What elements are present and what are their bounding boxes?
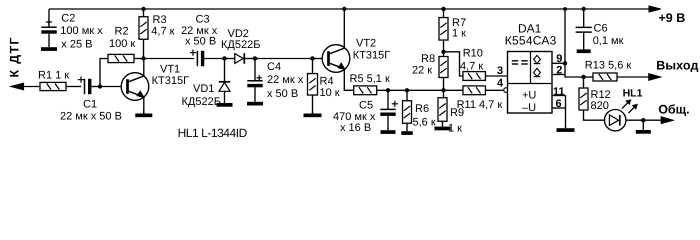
terminal Общ. arrow xyxy=(643,102,689,123)
wire node C to VD2 xyxy=(225,58,235,60)
resistor R9 xyxy=(438,90,464,134)
svg-text:x 16 В: x 16 В xyxy=(340,122,371,134)
capacitor C2 xyxy=(41,9,103,51)
ground under C4 xyxy=(247,87,263,105)
node G junction (R6 top) xyxy=(405,88,409,92)
svg-text:HL1: HL1 xyxy=(623,88,643,100)
node A junction (VT1 base) xyxy=(98,84,102,88)
wire VT1 emitter down xyxy=(143,97,145,114)
pin 11 line xyxy=(552,86,566,98)
svg-text:VT1: VT1 xyxy=(160,64,180,76)
svg-text:10 к: 10 к xyxy=(320,87,340,99)
ground under VT1 xyxy=(135,110,152,117)
node D junction (C4 top) xyxy=(253,56,257,60)
wire R10 to pin 3 xyxy=(486,75,508,77)
wire R11 to pin 4 circle xyxy=(486,89,504,91)
wire node G to node H xyxy=(407,89,444,91)
input terminal arrow xyxy=(11,83,24,90)
ground under C5 xyxy=(381,116,396,134)
wire R8 to node H xyxy=(443,78,445,91)
terminal Выход arrow xyxy=(649,58,699,80)
wire VD2 to node D xyxy=(244,58,255,60)
svg-text:9: 9 xyxy=(556,53,562,65)
terminal К ДТГ input label xyxy=(8,38,22,78)
svg-text:–U: –U xyxy=(522,102,536,114)
resistor R12 xyxy=(579,77,611,112)
svg-text:HL1 L-1344ID: HL1 L-1344ID xyxy=(178,126,248,140)
label +U xyxy=(522,89,536,101)
svg-text:C4: C4 xyxy=(267,61,281,73)
wire R1 to C1 xyxy=(66,86,81,88)
svg-text:4: 4 xyxy=(497,78,504,90)
svg-text:R3: R3 xyxy=(153,14,167,26)
wire pin 2 to output row xyxy=(565,63,584,77)
wire tap to R13 xyxy=(584,76,594,78)
svg-text:22 мк x 50 В: 22 мк x 50 В xyxy=(60,111,122,123)
open-collector diamond 1 xyxy=(534,55,541,63)
pin 3 label xyxy=(497,65,503,77)
ground under DA1 xyxy=(557,126,575,132)
pin 6 line xyxy=(552,98,566,110)
svg-text:+9 В: +9 В xyxy=(659,11,686,25)
node R12 tap on output row xyxy=(581,75,585,79)
svg-text:R13 5,6 к: R13 5,6 к xyxy=(585,60,632,72)
ground under C6 xyxy=(577,32,591,53)
comparator symbol = = xyxy=(512,61,528,64)
svg-text:C6: C6 xyxy=(594,23,608,35)
capacitor C3 xyxy=(181,14,218,67)
svg-text:2: 2 xyxy=(556,64,562,76)
node pin 9 junction xyxy=(563,61,567,65)
wire node J to R10 xyxy=(444,52,464,76)
wire R13 to output arrow xyxy=(617,76,649,78)
svg-text:Выход: Выход xyxy=(656,58,698,72)
svg-text:4,7 к: 4,7 к xyxy=(460,61,483,73)
label К554СА3 xyxy=(505,33,557,47)
svg-text:0,1 мк: 0,1 мк xyxy=(593,35,624,47)
label HL1 type L-1344ID xyxy=(178,126,248,140)
label DA1 xyxy=(518,21,542,35)
ground under R6 xyxy=(401,123,413,135)
svg-text:x 50 В: x 50 В xyxy=(267,88,298,100)
svg-text:КД522Б: КД522Б xyxy=(221,39,260,51)
wire VT2 collector to rail xyxy=(343,9,345,48)
node C junction (VD1 cathode) xyxy=(222,56,226,60)
svg-text:R10: R10 xyxy=(463,48,483,60)
ground under VD1 xyxy=(217,91,233,106)
svg-text:3: 3 xyxy=(497,65,503,77)
resistor R5 xyxy=(350,73,390,95)
resistor R8 xyxy=(412,53,448,78)
wire C3 to node C xyxy=(204,58,224,60)
node E junction (R4 / VT2 base) xyxy=(310,56,314,60)
pin 9 line xyxy=(552,53,565,65)
op-amp U1 comparator DA1 box xyxy=(508,52,553,114)
node R3 top on rail xyxy=(141,7,145,11)
svg-text:R6: R6 xyxy=(415,103,429,115)
wire VT1 collector to node B xyxy=(143,59,145,77)
capacitor C1 xyxy=(60,77,122,123)
capacitor C4 xyxy=(247,59,303,101)
wire node A to VT1 base xyxy=(100,86,128,88)
LED HL1 xyxy=(605,88,643,131)
svg-text:R5 5,1 к: R5 5,1 к xyxy=(350,73,390,85)
node J junction (R7/R8) xyxy=(441,50,445,54)
diode VD1 КД522Б xyxy=(182,59,231,109)
svg-text:C2: C2 xyxy=(61,13,75,25)
svg-text:VT2: VT2 xyxy=(356,38,376,50)
wire R12 to LED xyxy=(584,110,605,120)
wire rail to pin 9 vertical xyxy=(564,9,566,63)
capacitor C5 xyxy=(333,90,398,134)
node B junction (VT1 collector) xyxy=(141,56,145,60)
svg-text:100 мк x: 100 мк x xyxy=(60,25,103,37)
svg-text:11: 11 xyxy=(553,86,565,98)
ground under R9 xyxy=(435,121,451,130)
wire rail to R7 xyxy=(443,9,445,18)
resistor R2 xyxy=(108,26,135,63)
svg-text:R11 4,7 к: R11 4,7 к xyxy=(457,99,503,111)
node VT2 collector on rail xyxy=(342,7,346,11)
svg-text:R2: R2 xyxy=(115,26,129,38)
open-collector diamond 2 xyxy=(534,68,541,76)
wire pins 11/6 down xyxy=(565,96,567,129)
resistor R4 xyxy=(308,59,340,100)
wire R4 to ground xyxy=(312,95,314,114)
svg-text:R1 1 к: R1 1 к xyxy=(38,70,69,82)
svg-text:820: 820 xyxy=(591,100,609,112)
resistor R3 xyxy=(139,14,175,39)
node K common junction xyxy=(641,118,645,122)
transistor VT2 КТ315Г xyxy=(322,38,390,73)
svg-text:+U: +U xyxy=(522,89,536,101)
svg-text:R4: R4 xyxy=(320,76,334,88)
ground under node K xyxy=(636,120,651,134)
node R7 top on rail xyxy=(441,7,445,11)
node rail / pin9 wire xyxy=(563,7,567,11)
svg-text:К554СА3: К554СА3 xyxy=(505,33,557,47)
svg-text:x 50 В: x 50 В xyxy=(185,36,216,48)
capacitor C6 xyxy=(576,9,624,47)
label –U xyxy=(522,102,536,114)
wire R7 to node J xyxy=(443,40,445,57)
ground under C2 xyxy=(41,34,57,51)
wire node D to node E xyxy=(255,58,313,60)
wire C1 to node A xyxy=(91,86,100,88)
svg-text:x 25 В: x 25 В xyxy=(61,39,92,51)
svg-text:1 к: 1 к xyxy=(452,28,466,40)
node F junction (C5 top) xyxy=(386,88,390,92)
svg-text:22 к: 22 к xyxy=(412,65,432,77)
wire R3 to node B xyxy=(143,39,145,58)
resistor R10 xyxy=(460,48,485,81)
terminal +9 В arrow xyxy=(649,6,685,25)
wire LED to node K xyxy=(626,119,643,121)
svg-text:Общ.: Общ. xyxy=(658,102,689,116)
svg-text:5,6 к: 5,6 к xyxy=(413,117,436,129)
power rail +9V xyxy=(49,8,650,10)
node C6 on rail xyxy=(582,7,586,11)
svg-text:100 к: 100 к xyxy=(109,38,135,50)
wire R5 to node F xyxy=(377,89,388,91)
transistor VT1 КТ315Г xyxy=(121,64,189,101)
svg-text:VD1: VD1 xyxy=(193,83,214,95)
wire node H to R11 xyxy=(444,89,464,91)
wire R2 left to node A xyxy=(100,59,108,87)
wire VT2 emitter to R5 xyxy=(344,69,354,91)
pin 4 inversion circle xyxy=(504,88,509,93)
svg-text:C1: C1 xyxy=(83,99,97,111)
diode VD2 КД522Б xyxy=(221,28,260,64)
ground under R4 xyxy=(304,111,322,117)
wire rail to R3 xyxy=(143,9,145,17)
resistor R1 xyxy=(38,70,69,91)
pin 2 line xyxy=(552,64,565,76)
node H junction (R8/R9) xyxy=(441,88,445,92)
svg-text:22 мк x: 22 мк x xyxy=(267,74,304,86)
svg-text:C3: C3 xyxy=(196,14,210,26)
wire node E to VT2 base xyxy=(313,58,329,60)
wire input arrow to R1 xyxy=(23,86,40,88)
svg-text:4,7 к: 4,7 к xyxy=(151,26,174,38)
resistor R6 xyxy=(403,90,436,128)
svg-text:КТ315Г: КТ315Г xyxy=(353,50,390,62)
wire node B to C3 xyxy=(144,58,195,60)
LED emission arrows xyxy=(622,100,637,113)
svg-text:К ДТГ: К ДТГ xyxy=(8,38,22,78)
resistor R11 xyxy=(457,86,503,111)
svg-text:КД522Б: КД522Б xyxy=(182,96,221,108)
svg-text:КТ315Г: КТ315Г xyxy=(152,75,189,87)
wire R2 right to node B xyxy=(134,58,144,60)
svg-text:C5: C5 xyxy=(359,100,373,112)
wire node F to node G xyxy=(388,89,407,91)
resistor R13 xyxy=(585,60,632,81)
svg-text:R8: R8 xyxy=(421,53,435,65)
svg-text:6: 6 xyxy=(556,98,562,110)
pin 4 label xyxy=(497,78,504,90)
resistor R7 xyxy=(439,17,466,40)
